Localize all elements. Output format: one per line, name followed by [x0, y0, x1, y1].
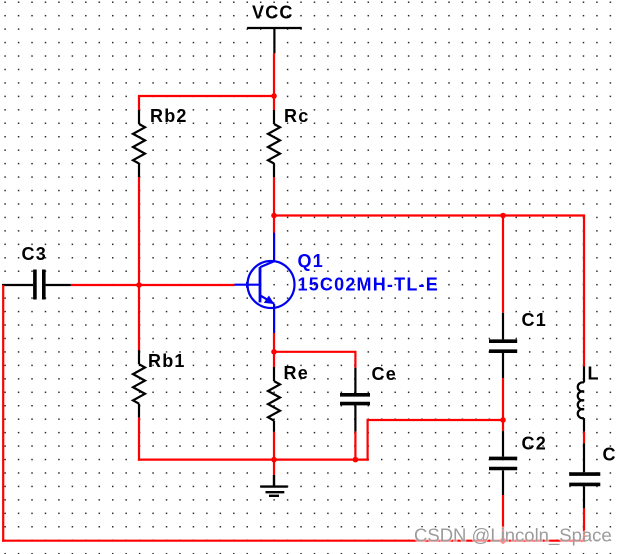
junction bottom rail C2 [500, 538, 506, 544]
svg-text:Re: Re [284, 363, 309, 383]
wire emitter stub [273, 333, 275, 352]
capacitor C2 [489, 431, 517, 495]
svg-text:Ce: Ce [372, 364, 397, 384]
svg-text:Rb2: Rb2 [150, 106, 188, 126]
wire top rail to Rb2 [138, 95, 274, 97]
wire emitter bottom rail [138, 459, 368, 461]
power symbol VCC [247, 28, 302, 53]
wire C1 top lead [502, 216, 504, 313]
wire right column top [583, 216, 585, 367]
capacitor C3 [2, 270, 71, 300]
wire feedback left column [2, 285, 4, 542]
junction collector node [271, 213, 277, 219]
wire Re bottom lead [273, 432, 275, 460]
wire bottom rail [2, 540, 585, 542]
wire Rb2 top lead [138, 96, 140, 111]
resistor Re [268, 367, 280, 432]
wire Rb2 to base node [138, 177, 140, 285]
svg-text:Rc: Rc [284, 106, 309, 126]
svg-text:C: C [603, 445, 617, 465]
wire Rc top lead [273, 96, 275, 111]
wire C2 bottom lead [502, 495, 504, 541]
svg-text:C3: C3 [22, 244, 47, 264]
junction C1 C2 node [500, 417, 506, 423]
wire collector stub [273, 216, 275, 234]
wire L to C [583, 432, 585, 443]
junction Ce bottom [353, 457, 359, 463]
wire Rb1 top [138, 285, 140, 351]
wire Rb1 bottom [138, 418, 140, 461]
svg-text:C2: C2 [522, 434, 547, 454]
svg-text:Q1: Q1 [298, 251, 324, 271]
watermark [414, 525, 612, 547]
capacitor C [569, 443, 600, 508]
wire collector rail [274, 214, 585, 216]
wire C to bottom rail [583, 508, 585, 541]
junction C1 top node [500, 213, 506, 219]
wire emitter to Ce top [274, 352, 355, 368]
junction top node [271, 93, 277, 99]
junction emitter node [271, 349, 277, 355]
wire step emitter rail to C1C2 node [368, 420, 503, 461]
resistor Rb2 [133, 110, 145, 177]
wire Ce bottom lead [354, 432, 356, 460]
inductor L [578, 367, 584, 432]
svg-text:C1: C1 [522, 310, 547, 330]
junction ground node [271, 457, 277, 463]
resistor Rc [268, 110, 280, 177]
resistor Rb1 [133, 350, 145, 417]
svg-text:Rb1: Rb1 [148, 351, 186, 371]
capacitor Ce [340, 368, 370, 432]
svg-text:VCC: VCC [252, 2, 294, 22]
svg-text:L: L [588, 364, 600, 384]
ground [260, 460, 288, 496]
wire VCC stem to top node [273, 53, 275, 97]
wire C2 top lead [502, 420, 504, 431]
transistor Q1 [235, 233, 295, 333]
svg-text:15C02MH-TL-E: 15C02MH-TL-E [298, 274, 439, 294]
wire Re top lead [273, 352, 275, 368]
wire C1 bottom lead [502, 378, 504, 420]
capacitor C1 [489, 313, 517, 378]
svg-text:CSDN @Lincoln_Space: CSDN @Lincoln_Space [414, 525, 612, 547]
junction base node [136, 282, 142, 288]
wire Rc to collector node [273, 177, 275, 217]
wire base rail [71, 284, 235, 286]
